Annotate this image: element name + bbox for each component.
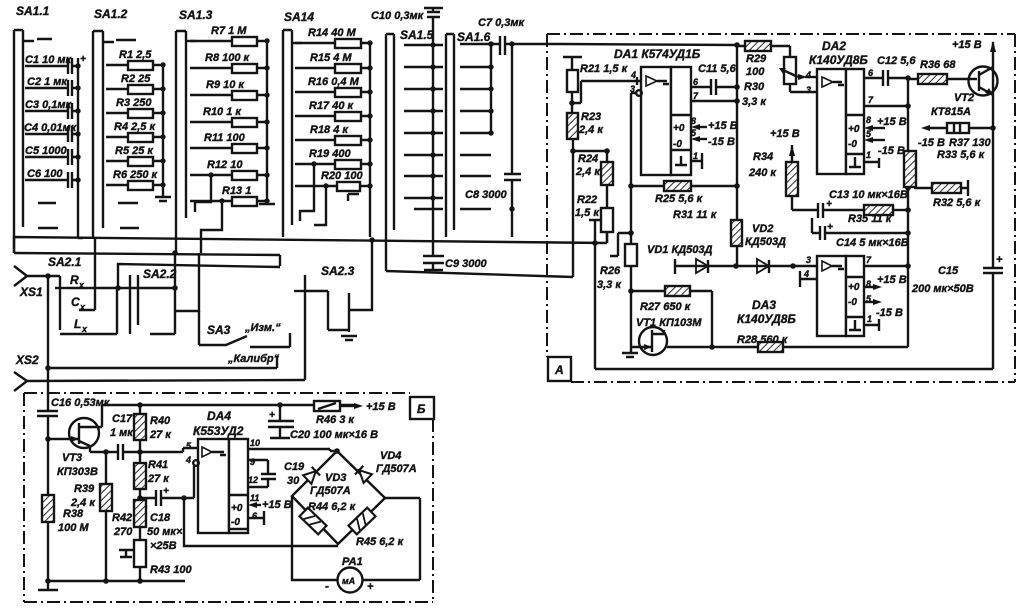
svg-text:R21 1,5 к: R21 1,5 к — [580, 63, 629, 75]
svg-text:R27 650 к: R27 650 к — [640, 301, 692, 313]
svg-text:мА: мА — [342, 576, 355, 586]
svg-text:+: + — [367, 581, 374, 593]
diode VD3 — [303, 467, 351, 497]
svg-text:8: 8 — [691, 116, 696, 126]
capacitor C15 — [911, 254, 1003, 369]
svg-text:R33 5,6 к: R33 5,6 к — [937, 149, 986, 161]
svg-text:R44 6,2 к: R44 6,2 к — [308, 501, 357, 513]
op-amp DA4 — [185, 409, 260, 533]
svg-text:R14 40 М: R14 40 М — [308, 27, 357, 39]
switch SA1.1 — [14, 4, 52, 253]
resistor R1 — [106, 49, 166, 70]
wire XS2 long line — [27, 380, 305, 381]
resistor R18 — [295, 124, 373, 145]
resistor R43 — [119, 540, 192, 581]
svg-text:2,4 к: 2,4 к — [70, 497, 96, 509]
svg-text:SA1.1: SA1.1 — [16, 4, 50, 18]
svg-text:12: 12 — [248, 475, 258, 485]
resistor R20 — [295, 170, 373, 225]
svg-text:R24: R24 — [578, 153, 598, 165]
svg-text:+15 В: +15 В — [952, 39, 982, 51]
wire feedback riser x737 — [736, 45, 738, 220]
svg-text:VT1 КП103М: VT1 КП103М — [636, 317, 702, 329]
resistor R37 — [918, 123, 996, 149]
svg-text:R37 130: R37 130 — [949, 137, 991, 149]
resistor R29 — [737, 41, 790, 78]
resistor R27 — [631, 286, 715, 350]
svg-text:R6 250 к: R6 250 к — [113, 169, 159, 181]
node at SA2.3 riser — [369, 237, 375, 243]
wire C18 to DA4 pin4 — [193, 460, 199, 466]
svg-text:R12 10: R12 10 — [207, 159, 243, 171]
svg-text:VT2: VT2 — [954, 92, 974, 104]
svg-text:3: 3 — [630, 84, 635, 94]
svg-text:VD1 КД503Д: VD1 КД503Д — [647, 244, 713, 256]
svg-text:C9 3000: C9 3000 — [445, 258, 487, 270]
svg-text:R15 4 М: R15 4 М — [310, 52, 352, 64]
svg-text:R32 5,6 к: R32 5,6 к — [933, 197, 982, 209]
resistor R35 — [848, 205, 908, 225]
wire VT3 drain top rail — [102, 404, 354, 406]
svg-text:R38: R38 — [63, 508, 84, 520]
capacitor C4 — [24, 122, 81, 142]
resistor R44 — [299, 501, 356, 534]
svg-text:2,4 к: 2,4 к — [575, 166, 601, 178]
svg-text:R42: R42 — [112, 512, 132, 524]
svg-text:C3 0,1мк: C3 0,1мк — [25, 99, 73, 111]
svg-text:3: 3 — [806, 85, 811, 95]
op-amp DA2 — [805, 39, 874, 174]
svg-text:R7 1 М: R7 1 М — [211, 25, 247, 37]
wire DA3 -15V pin5 — [864, 299, 903, 319]
svg-text:4: 4 — [185, 455, 191, 465]
resistor R22 — [575, 194, 613, 243]
svg-text:4: 4 — [805, 70, 811, 80]
svg-text:C10 0,3мк: C10 0,3мк — [371, 10, 425, 22]
capacitor C1 — [25, 54, 86, 74]
svg-text:R20 100: R20 100 — [321, 170, 363, 182]
svg-text:C5 1000: C5 1000 — [25, 145, 67, 157]
svg-text:×25В: ×25В — [150, 540, 177, 552]
svg-text:-15 В: -15 В — [708, 136, 735, 148]
ground DA3 pin1 — [864, 319, 879, 331]
switch SA1.3 — [176, 8, 213, 253]
capacitor C3 — [25, 99, 81, 119]
resistor R31 — [731, 220, 742, 266]
capacitor C18 — [140, 486, 194, 552]
switch SA1.5 — [386, 28, 443, 271]
transistor VT1 — [622, 291, 712, 357]
svg-text:К140УД8Б: К140УД8Б — [809, 53, 868, 67]
resistor R21 — [563, 57, 629, 106]
node Б label box — [410, 397, 434, 419]
svg-text:+0: +0 — [848, 124, 860, 135]
svg-text:+: + — [827, 222, 833, 233]
svg-text:R46 3 к: R46 3 к — [316, 414, 355, 426]
capacitor C5 — [25, 145, 81, 165]
svg-text:R25 5,6 к: R25 5,6 к — [655, 193, 704, 205]
svg-text:„Изм.“: „Изм.“ — [244, 322, 281, 334]
wire DA1 -15V pin — [691, 136, 735, 148]
svg-text:R13 1: R13 1 — [222, 185, 251, 197]
svg-text:VD3: VD3 — [325, 472, 346, 484]
svg-text:R5 25 к: R5 25 к — [115, 145, 154, 157]
svg-text:SA14: SA14 — [284, 10, 314, 24]
svg-text:SA2.1: SA2.1 — [48, 255, 82, 269]
svg-text:R16 0,4 М: R16 0,4 М — [308, 76, 360, 88]
connector XS1 — [14, 266, 60, 299]
svg-text:R18 4 к: R18 4 к — [310, 124, 349, 136]
wire bridge feedback to C18 — [184, 498, 338, 546]
svg-text:R31 11 к: R31 11 к — [673, 209, 718, 221]
resistor R39 — [70, 449, 112, 581]
resistor R8 — [190, 52, 270, 73]
svg-text:3,3 к: 3,3 к — [597, 279, 622, 291]
svg-text:SA1.3: SA1.3 — [179, 8, 213, 22]
capacitor C2 — [25, 76, 81, 96]
svg-text:1: 1 — [867, 314, 872, 324]
svg-text:C1 10 мк: C1 10 мк — [25, 54, 73, 66]
svg-text:+15 В: +15 В — [708, 120, 738, 132]
resistor R25 — [631, 181, 737, 205]
svg-text:C17: C17 — [112, 413, 133, 425]
wire top bus into block A — [563, 44, 737, 45]
svg-text:R8 100 к: R8 100 к — [205, 52, 251, 64]
resistor R33 — [904, 149, 986, 187]
capacitor C17 — [106, 413, 143, 460]
svg-text:200 мк×50В: 200 мк×50В — [911, 283, 974, 295]
svg-text:+15 В: +15 В — [366, 401, 396, 413]
svg-text:50 мк×: 50 мк× — [147, 526, 183, 538]
capacitor C14 — [812, 218, 909, 249]
connector XS2 — [14, 353, 51, 391]
svg-text:R30: R30 — [744, 81, 765, 93]
op-amp DA3 — [737, 255, 872, 336]
svg-text:R40: R40 — [150, 415, 171, 427]
resistor R2 — [106, 73, 166, 94]
svg-text:-15 В: -15 В — [918, 137, 945, 149]
wire diode row to DA3 pin3 — [793, 265, 817, 267]
resistor R10 — [190, 106, 270, 127]
svg-text:VT3: VT3 — [62, 452, 82, 464]
svg-text:А: А — [554, 363, 564, 377]
svg-text:R19 400: R19 400 — [309, 148, 351, 160]
wire DA2 pin7 to riser — [864, 105, 908, 107]
svg-text:1 мк: 1 мк — [110, 427, 134, 439]
svg-text:+0: +0 — [231, 503, 243, 514]
svg-text:+15 В: +15 В — [877, 274, 907, 286]
svg-text:DA3: DA3 — [752, 298, 776, 312]
svg-text:-0: -0 — [231, 517, 240, 528]
svg-text:C13 10 мк×16В: C13 10 мк×16В — [829, 189, 908, 201]
switch SA2.2 — [130, 250, 199, 334]
resistor R11 — [190, 132, 270, 153]
svg-text:-15 В: -15 В — [878, 145, 905, 157]
capacitor C9 — [423, 230, 487, 270]
resistor R38 — [42, 439, 89, 584]
capacitor C16 — [37, 368, 111, 442]
svg-text:8: 8 — [866, 115, 871, 125]
wire DA2 pin4 arrow — [805, 76, 817, 78]
switch SA3 — [199, 311, 290, 365]
svg-text:-0: -0 — [848, 139, 857, 150]
svg-text:R1 2,5: R1 2,5 — [119, 49, 152, 61]
svg-text:-15 В: -15 В — [876, 307, 903, 319]
ground of R7-R13 common — [259, 41, 275, 204]
svg-text:+: + — [80, 54, 86, 65]
switch SA1.4 — [283, 10, 314, 237]
svg-text:C6 100: C6 100 — [27, 168, 63, 180]
svg-text:R22: R22 — [577, 194, 597, 206]
wire DA2 -15V pin5 — [864, 137, 905, 157]
resistor R40 — [134, 405, 172, 452]
wire feedback riser x908 — [907, 78, 909, 347]
wire C17/R40 node to DA4 pin5 — [140, 448, 198, 452]
diode VD1 — [647, 244, 736, 274]
capacitor C13 — [818, 189, 908, 218]
wire calibr line — [48, 356, 277, 368]
resistor R16 — [295, 76, 373, 97]
svg-text:VD2: VD2 — [752, 223, 773, 235]
svg-text:R45 6,2 к: R45 6,2 к — [356, 536, 405, 548]
svg-text:R36 68: R36 68 — [920, 59, 956, 71]
svg-text:+0: +0 — [673, 123, 685, 134]
resistor R46 — [314, 401, 396, 426]
svg-text:XS1: XS1 — [19, 285, 43, 299]
svg-text:R23: R23 — [581, 111, 601, 123]
wire R30 to DA2 pin3 — [790, 91, 817, 93]
svg-text:1: 1 — [866, 150, 871, 160]
+15V mid arrow — [770, 128, 800, 162]
svg-text:КП303В: КП303В — [57, 466, 98, 478]
wire DA4 +15V pin11 — [248, 499, 292, 511]
block B dashed border — [24, 393, 433, 602]
svg-text:R26: R26 — [600, 265, 621, 277]
capacitor C20 — [268, 405, 378, 441]
svg-text:R43 100: R43 100 — [150, 564, 192, 576]
svg-text:C14 5 мк×16В: C14 5 мк×16В — [836, 237, 909, 249]
wire bus y253 — [14, 253, 280, 266]
svg-text:Б: Б — [417, 402, 426, 416]
svg-text:R10 1 к: R10 1 к — [203, 106, 242, 118]
SA1.1 spare contacts — [38, 203, 58, 228]
svg-text:C2 1 мк: C2 1 мк — [27, 76, 68, 88]
op-amp DA1 — [614, 47, 701, 175]
svg-text:C8 3000: C8 3000 — [465, 189, 507, 201]
resistor R41 — [134, 452, 170, 501]
wire block A bottom rail — [595, 368, 993, 370]
svg-text:К553УД2: К553УД2 — [193, 424, 244, 438]
svg-text:+15 В: +15 В — [262, 499, 292, 511]
svg-text:+: + — [269, 410, 275, 421]
capacitor C7 — [478, 17, 563, 55]
wire input line SA1.5 to block A — [386, 271, 573, 277]
resistor R32 — [914, 180, 982, 209]
resistor R42 — [112, 498, 146, 540]
resistor R7 — [190, 25, 270, 46]
resistor R6 — [106, 169, 166, 190]
svg-text:C18: C18 — [150, 512, 171, 524]
svg-text:4: 4 — [803, 269, 809, 279]
wire DA2 +15V pin8 — [864, 116, 907, 131]
ground of R1-R6 common — [155, 65, 171, 201]
capacitor C8 — [465, 41, 521, 237]
svg-text:9: 9 — [250, 457, 255, 467]
resistor R14 — [295, 27, 373, 48]
meter PA1 — [325, 556, 374, 593]
resistor R9 — [190, 79, 270, 100]
svg-text:27 к: 27 к — [149, 429, 172, 441]
wire bridge left to meter — [292, 496, 338, 580]
svg-text:R17 40 к: R17 40 к — [309, 100, 355, 112]
svg-text:DA4: DA4 — [207, 409, 231, 423]
svg-text:1,5 к: 1,5 к — [575, 207, 600, 219]
svg-text:C20 100 мк×16 В: C20 100 мк×16 В — [290, 429, 378, 441]
svg-text:R39: R39 — [74, 483, 95, 495]
wire DA3 +15V pin8 — [864, 274, 907, 290]
wire R21 node to DA1 pin4 — [572, 77, 641, 103]
svg-text:C12 5,6: C12 5,6 — [877, 55, 916, 67]
svg-text:R2 25: R2 25 — [121, 73, 151, 85]
wire DA3 pin7 out — [864, 265, 908, 267]
svg-text:SA1.5: SA1.5 — [400, 28, 434, 42]
ground DA1 pin1 — [691, 153, 702, 169]
svg-text:+: + — [163, 486, 169, 497]
svg-text:R34: R34 — [753, 151, 773, 163]
svg-text:C19: C19 — [284, 461, 305, 473]
svg-text:ГД507А: ГД507А — [376, 463, 417, 475]
svg-text:270: 270 — [113, 526, 133, 538]
svg-text:R11 100: R11 100 — [204, 132, 246, 144]
svg-text:КД503Д: КД503Д — [745, 236, 786, 248]
resistor R26 — [597, 244, 637, 294]
svg-text:ГД507А: ГД507А — [310, 485, 351, 497]
resistor R24 — [575, 148, 613, 208]
svg-text:XS2: XS2 — [15, 353, 39, 367]
resistor R45 — [348, 508, 404, 548]
resistor R28 — [712, 334, 908, 352]
resistor R30 trimmer — [742, 46, 798, 108]
ground bottom rail — [48, 580, 185, 582]
svg-text:х: х — [81, 324, 88, 334]
svg-text:+: + — [996, 254, 1003, 266]
transistor VT2 — [931, 67, 998, 119]
svg-text:27 к: 27 к — [147, 473, 170, 485]
svg-text:C7 0,3мк: C7 0,3мк — [478, 17, 526, 29]
svg-text:100 М: 100 М — [58, 522, 89, 534]
svg-text:R9 10 к: R9 10 к — [206, 79, 245, 91]
capacitor C12 — [864, 55, 916, 86]
svg-text:R4 2,5 к: R4 2,5 к — [114, 121, 156, 133]
svg-text:L: L — [74, 317, 81, 331]
resistor R13 — [190, 185, 270, 253]
svg-text:DA2: DA2 — [822, 39, 846, 53]
svg-text:R29: R29 — [746, 53, 767, 65]
switch SA1.2 — [93, 7, 136, 237]
SA1.2 spare contacts — [118, 203, 139, 228]
svg-text:SA1.6: SA1.6 — [457, 30, 491, 44]
svg-text:SA2.2: SA2.2 — [143, 267, 177, 281]
svg-text:VD4: VD4 — [380, 450, 401, 462]
svg-text:+15 В: +15 В — [770, 128, 800, 140]
wire loop riser x595 — [589, 220, 602, 369]
svg-text:2,4 к: 2,4 к — [578, 124, 604, 136]
wire bus y237 — [14, 232, 607, 253]
svg-text:+: + — [826, 199, 832, 210]
svg-text:+15 В: +15 В — [877, 116, 907, 128]
wire R14-R20 common to bus — [369, 43, 371, 237]
wire DA1 pin3 riser — [631, 93, 637, 244]
wire XS1 riser down — [47, 276, 49, 368]
switch SA2.1 — [48, 237, 175, 334]
resistor R23 — [567, 103, 604, 277]
switch SA1.6 — [446, 30, 494, 237]
wire common of C1-C6 down to bus — [78, 58, 83, 238]
svg-text:-0: -0 — [848, 297, 857, 308]
svg-text:DA1 К574УД1Б: DA1 К574УД1Б — [614, 47, 701, 61]
capacitor C19 — [248, 460, 305, 487]
wire DA1 pin7 to feedback riser — [691, 100, 737, 102]
svg-text:R: R — [70, 273, 79, 287]
resistor R4 — [106, 121, 166, 142]
wire DA4 out to bridge — [248, 449, 337, 451]
resistor R19 — [295, 148, 373, 221]
svg-text:3,3 к: 3,3 к — [742, 96, 767, 108]
wire inverting node row — [573, 150, 607, 152]
svg-text:SA1.2: SA1.2 — [94, 7, 128, 21]
resistor R12 — [190, 159, 270, 212]
svg-text:-0: -0 — [673, 139, 682, 150]
svg-text:C11 5,6: C11 5,6 — [698, 63, 737, 75]
svg-text:КТ815А: КТ815А — [931, 106, 971, 118]
wire bridge right to meter — [362, 498, 420, 580]
svg-text:C4 0,01мк: C4 0,01мк — [24, 122, 78, 134]
svg-text:SA3: SA3 — [207, 323, 231, 337]
svg-text:11: 11 — [250, 493, 259, 503]
svg-text:10: 10 — [250, 438, 260, 448]
svg-text:C: C — [71, 295, 80, 309]
svg-text:+0: +0 — [848, 282, 860, 293]
+15V rail top — [952, 39, 996, 268]
wire measurement line y264 — [118, 264, 280, 288]
svg-text:R3 250: R3 250 — [116, 97, 152, 109]
svg-text:„Калибр“: „Калибр“ — [227, 353, 280, 365]
resistor R3 — [106, 97, 166, 118]
switch SA2.3 — [294, 264, 355, 380]
node A label box — [548, 357, 571, 381]
resistor R34 — [748, 151, 818, 210]
svg-text:3: 3 — [806, 255, 811, 265]
svg-text:1: 1 — [693, 151, 698, 161]
svg-text:SA2.3: SA2.3 — [321, 264, 355, 278]
diode VD4 — [355, 450, 417, 483]
resistor R5 — [106, 145, 166, 166]
capacitor C6 — [25, 168, 81, 188]
block A dashed border — [547, 34, 1015, 382]
resistor R36 — [908, 59, 977, 84]
transistor VT3 — [48, 405, 106, 478]
resistor R17 — [295, 100, 373, 121]
svg-text:240 к: 240 к — [748, 167, 777, 179]
svg-text:R41: R41 — [148, 459, 168, 471]
wire DA1 +15V pin — [691, 120, 738, 132]
svg-text:4: 4 — [630, 70, 636, 80]
resistor R15 — [295, 52, 373, 73]
svg-text:30: 30 — [287, 475, 300, 487]
diode bridge — [292, 451, 385, 544]
svg-text:РА1: РА1 — [342, 556, 363, 568]
svg-text:100: 100 — [746, 66, 765, 78]
